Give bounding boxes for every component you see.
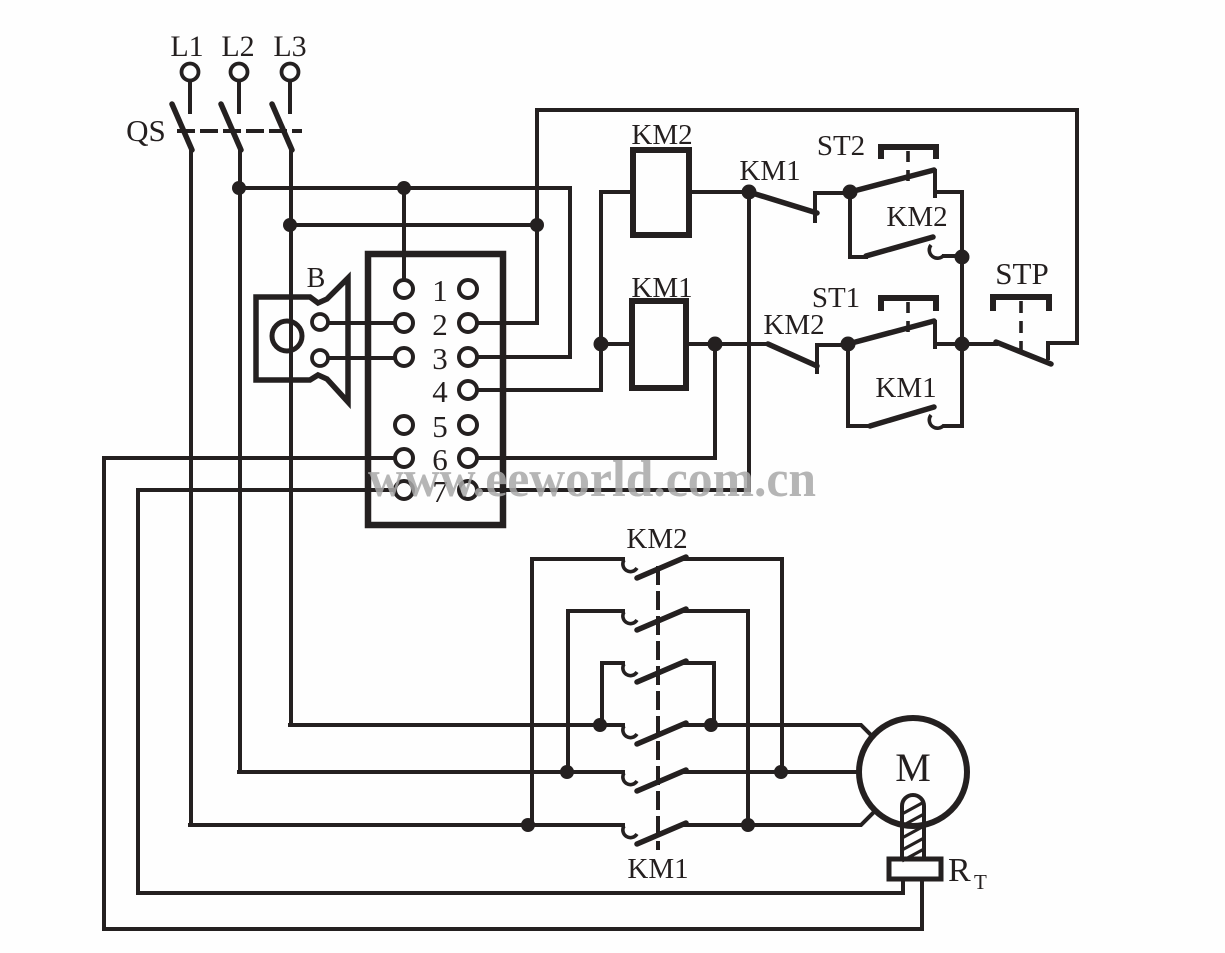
svg-text:KM2: KM2 <box>626 523 687 555</box>
svg-text:M: M <box>895 745 931 790</box>
svg-text:2: 2 <box>432 307 448 342</box>
svg-text:R: R <box>948 852 971 889</box>
svg-text:ST2: ST2 <box>817 130 865 162</box>
svg-text:KM1: KM1 <box>739 155 800 187</box>
svg-text:3: 3 <box>432 341 448 376</box>
svg-text:L1: L1 <box>170 30 203 63</box>
svg-text:QS: QS <box>126 113 166 148</box>
svg-text:KM1: KM1 <box>631 272 692 304</box>
svg-text:ST1: ST1 <box>812 282 860 314</box>
svg-text:T: T <box>974 870 987 894</box>
svg-text:B: B <box>307 263 326 294</box>
svg-text:STP: STP <box>995 256 1048 291</box>
svg-text:KM2: KM2 <box>631 119 692 151</box>
svg-text:KM2: KM2 <box>886 201 947 233</box>
svg-text:KM1: KM1 <box>875 372 936 404</box>
svg-text:www.eeworld.com.cn: www.eeworld.com.cn <box>368 451 816 508</box>
svg-text:4: 4 <box>432 374 448 409</box>
svg-text:L3: L3 <box>273 30 306 63</box>
svg-text:1: 1 <box>432 273 448 308</box>
svg-text:L2: L2 <box>221 30 254 63</box>
svg-text:KM1: KM1 <box>627 853 688 885</box>
svg-text:5: 5 <box>432 409 448 444</box>
